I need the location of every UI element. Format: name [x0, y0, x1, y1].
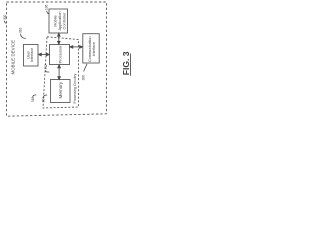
communication interface box 306 [83, 34, 99, 63]
label Communication Interface [88, 36, 96, 62]
svg-text:Memory: Memory [58, 81, 63, 98]
svg-text:Interface: Interface [30, 48, 34, 62]
memory box 304 [51, 80, 71, 103]
wire: controller to processor double arrow [58, 36, 60, 43]
svg-text:304: 304 [42, 97, 46, 103]
mobile device outer dashed box 300 [7, 2, 107, 116]
label Mobile Application Controller [52, 11, 66, 30]
svg-text:306: 306 [82, 75, 86, 81]
svg-text:Processor: Processor [57, 45, 62, 64]
svg-text:Controller: Controller [62, 12, 67, 30]
svg-text:316: 316 [19, 27, 23, 33]
wire: user interface to processor double arrow [41, 54, 48, 56]
svg-text:312: 312 [44, 64, 48, 70]
svg-text:Processing Circuitry: Processing Circuitry [73, 73, 77, 103]
label User Interface [26, 48, 34, 62]
user interface box 316 [24, 45, 39, 67]
mobile application controller box 136 [49, 9, 68, 33]
processor box 312 [50, 45, 70, 65]
wire: processor to communication interface double arrow [72, 46, 81, 48]
processing circuitry inner dashed box 318 [43, 37, 79, 108]
wire: processor to memory double arrow [58, 67, 60, 78]
svg-text:318: 318 [31, 97, 35, 103]
svg-text:Interface: Interface [92, 42, 96, 56]
svg-text:300: 300 [3, 14, 7, 20]
svg-text:MOBILE DEVICE: MOBILE DEVICE [11, 40, 16, 75]
svg-text:136: 136 [45, 4, 49, 10]
svg-text:FIG. 3: FIG. 3 [121, 51, 131, 75]
